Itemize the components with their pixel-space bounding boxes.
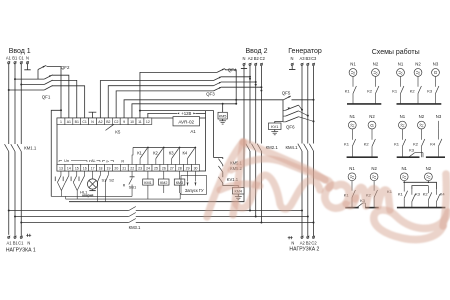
wire cell C2 to QF3 — [116, 91, 213, 118]
wire scheme6 cross links — [403, 181, 405, 182]
switch S1 — [99, 171, 101, 175]
node scheme4 busbars — [397, 156, 420, 158]
svg-text:N1: N1 — [398, 62, 404, 67]
terminal Input2 A2 — [249, 63, 251, 65]
svg-text:K1: K1 — [398, 192, 404, 197]
svg-text:12: 12 — [146, 120, 150, 124]
coil KM3 — [179, 171, 181, 179]
svg-text:+12В: +12В — [181, 111, 191, 116]
svg-text:авария: авария — [82, 194, 93, 198]
relay contact KM5.2 — [222, 165, 224, 167]
diagram scheme2 contacts K1 K2 K3 — [400, 77, 402, 87]
svg-text:N: N — [26, 56, 29, 61]
svg-text:14: 14 — [67, 167, 71, 171]
diagram scheme1 contacts K1 K2 — [352, 77, 354, 87]
svg-text:B1: B1 — [75, 120, 79, 124]
relay contact KV1.1 — [222, 172, 224, 177]
svg-text:N1: N1 — [401, 166, 407, 171]
wire cell12 +12V stub — [148, 113, 177, 118]
wire GU start arrows — [187, 171, 189, 182]
svg-text:K3: K3 — [415, 192, 421, 197]
svg-text:⊳: ⊳ — [106, 159, 109, 163]
switch S2 — [107, 171, 109, 175]
svg-text:SB1: SB1 — [129, 184, 137, 189]
wire phase C1 vertical — [20, 64, 22, 144]
wire cell A2 to QF3 — [100, 81, 213, 119]
svg-text:A1: A1 — [6, 56, 12, 61]
svg-text:N2: N2 — [371, 166, 377, 171]
svg-text:Ввод 2: Ввод 2 — [246, 48, 268, 55]
svg-text:20: 20 — [114, 167, 118, 171]
svg-text:N: N — [243, 56, 246, 61]
relay contact K3 bridge scheme4 — [409, 153, 415, 158]
wire collector line1 — [51, 195, 132, 197]
terminal Input2 B2 — [255, 63, 257, 65]
svg-text:Схемы работы: Схемы работы — [372, 48, 420, 56]
svg-text:16: 16 — [83, 167, 87, 171]
relay KM4 — [223, 183, 239, 188]
svg-text:Запуск ГУ: Запуск ГУ — [185, 188, 204, 193]
ground KM4 earth — [237, 194, 239, 197]
terminal Load1 N connector — [26, 234, 31, 236]
svg-text:24: 24 — [146, 167, 150, 171]
svg-text:QF6: QF6 — [286, 124, 295, 129]
svg-text:15: 15 — [75, 167, 79, 171]
svg-text:18: 18 — [99, 167, 103, 171]
svg-text:A1: A1 — [67, 120, 71, 124]
svg-text:Ввод 1: Ввод 1 — [9, 48, 31, 55]
breaker QF2 — [37, 70, 39, 80]
svg-text:НАГРУЗКА 2: НАГРУЗКА 2 — [289, 247, 319, 253]
svg-text:K2: K2 — [367, 88, 373, 93]
node scheme5 busbars — [345, 207, 358, 209]
svg-text:КМ1.1: КМ1.1 — [24, 145, 37, 150]
wire bus phase A — [9, 210, 129, 212]
svg-text:QF5: QF5 — [282, 91, 291, 96]
node scheme6 busbar — [397, 207, 446, 209]
svg-text:A1: A1 — [190, 129, 196, 134]
terminal Gen C3 — [312, 63, 314, 65]
contactor contact KM3.1 (3 poles) — [129, 207, 136, 211]
svg-text:21: 21 — [122, 167, 126, 171]
relay KM5 — [222, 104, 224, 113]
svg-text:S1: S1 — [101, 177, 107, 182]
svg-text:QF2: QF2 — [61, 65, 70, 70]
wire cell10 to KM5 line — [132, 104, 236, 118]
svg-text:K2: K2 — [423, 192, 429, 197]
svg-text:23: 23 — [138, 167, 142, 171]
ground KM5 earth — [222, 119, 224, 121]
lamp HL1 — [92, 171, 94, 179]
node scheme3 busbar — [347, 156, 378, 158]
contactor contact KM2.1 (3 poles) — [246, 144, 250, 151]
diagram scheme5 contacts K1 K2 — [351, 181, 353, 191]
ground KV1 earth — [274, 130, 276, 132]
svg-text:G: G — [370, 123, 374, 128]
wire chain feeder — [214, 157, 223, 159]
terminal Input1 A1 — [8, 62, 10, 64]
svg-text:28: 28 — [178, 167, 182, 171]
ground Input2 N earth — [243, 66, 245, 69]
svg-text:29: 29 — [186, 167, 190, 171]
coil KM1 — [147, 171, 149, 179]
svg-text:9: 9 — [123, 120, 125, 124]
coil KM2 — [163, 171, 165, 179]
svg-text:K5: K5 — [115, 129, 121, 134]
wire Gen B3 vertical — [307, 66, 309, 144]
wire phase B1 vertical — [14, 64, 16, 144]
wire Input2 C2 vertical — [260, 66, 262, 144]
svg-text:K1: K1 — [394, 141, 400, 146]
bracket arrow symbol — [103, 159, 106, 161]
terminal Input1 C1 — [20, 62, 22, 64]
svg-text:N1: N1 — [400, 114, 406, 119]
op-amp module AVR-02 outline — [57, 118, 206, 171]
breaker QF5 — [283, 96, 290, 100]
svg-text:13: 13 — [59, 167, 63, 171]
svg-text:N: N — [291, 241, 294, 246]
svg-text:K1: K1 — [345, 88, 351, 93]
node dot junction cell1 branch — [60, 109, 62, 111]
relay contacts K1-K4 with common bus — [133, 147, 195, 149]
svg-text:1: 1 — [60, 120, 62, 124]
svg-text:A2: A2 — [98, 120, 102, 124]
svg-text:27: 27 — [170, 167, 174, 171]
svg-text:K2: K2 — [410, 88, 416, 93]
op-amp AVR-02 label box — [173, 117, 200, 126]
svg-text:K3: K3 — [409, 148, 415, 153]
svg-text:КМ1: КМ1 — [144, 181, 151, 185]
wire bus +A3 line cell9 — [124, 100, 283, 118]
svg-text:К2: К2 — [153, 151, 158, 156]
terminal Load1 B1 — [14, 236, 16, 238]
terminal Input2 N — [243, 63, 245, 65]
svg-text:R: R — [121, 159, 124, 163]
svg-text:QF3: QF3 — [206, 91, 215, 96]
diagram scheme4 contacts K1 K2 K4 — [401, 129, 403, 140]
svg-text:C1: C1 — [19, 56, 25, 61]
svg-text:A1: A1 — [6, 241, 12, 246]
svg-text:A3: A3 — [299, 56, 305, 61]
breaker QF1 (3 poles) — [15, 78, 44, 80]
node scheme1 busbar — [347, 103, 381, 105]
terminal Gen A3 — [301, 63, 303, 65]
svg-text:S2: S2 — [109, 177, 115, 182]
svg-text:Uн: Uн — [64, 159, 69, 163]
svg-text:К4: К4 — [182, 151, 187, 156]
svg-text:22: 22 — [130, 167, 134, 171]
relay contact KM5.1 — [222, 158, 224, 160]
svg-text:N2: N2 — [373, 62, 379, 67]
svg-text:B2: B2 — [106, 120, 110, 124]
svg-text:N3: N3 — [433, 62, 439, 67]
terminal Load2 C2 — [312, 236, 314, 238]
terminal Input1 N — [26, 62, 28, 64]
svg-text:C2: C2 — [114, 120, 119, 124]
svg-text:QF4: QF4 — [228, 68, 237, 73]
svg-text:11: 11 — [138, 120, 142, 124]
bracket Un — [59, 159, 62, 161]
svg-text:НАГРУЗКА 1: НАГРУЗКА 1 — [6, 247, 36, 253]
wire branch to left vertical — [51, 110, 61, 196]
wire Input2 B2 vertical — [255, 66, 257, 144]
wire Input2 N return — [69, 69, 244, 202]
wire Gen C3 vertical — [313, 66, 315, 144]
wire collector line2 — [66, 198, 181, 200]
terminal Load2 N connector — [288, 237, 293, 239]
svg-text:K2: K2 — [364, 141, 370, 146]
svg-text:C1: C1 — [82, 120, 87, 124]
svg-text:K1: K1 — [344, 141, 350, 146]
svg-text:C2: C2 — [260, 56, 266, 61]
svg-text:25: 25 — [154, 167, 158, 171]
svg-text:N3: N3 — [436, 114, 442, 119]
wire collector line3 (N) — [69, 201, 244, 203]
svg-text:26: 26 — [162, 167, 166, 171]
svg-text:N1: N1 — [350, 62, 356, 67]
svg-text:G: G — [434, 70, 438, 75]
svg-text:B2: B2 — [254, 56, 260, 61]
selector contacts cells 13-16 — [60, 171, 62, 176]
ground Input1 N earth — [27, 64, 29, 70]
svg-text:K2: K2 — [413, 141, 419, 146]
terminal Input1 B1 — [14, 62, 16, 64]
svg-text:N1: N1 — [350, 114, 356, 119]
svg-text:К3: К3 — [169, 151, 174, 156]
svg-text:Генератор: Генератор — [288, 48, 322, 55]
wire cell11 branch right — [140, 111, 214, 158]
relay contact K3 bridge scheme5 — [357, 203, 363, 208]
node scheme2 busbar — [397, 103, 442, 105]
svg-text:КМ3: КМ3 — [176, 181, 183, 185]
breaker QF3 (3 poles) — [214, 77, 222, 81]
svg-text:N1: N1 — [349, 166, 355, 171]
svg-text:K3: K3 — [427, 88, 433, 93]
svg-text:N2: N2 — [369, 114, 375, 119]
terminal Input2 C2 — [260, 63, 262, 65]
terminal strip top row 1..12 — [57, 118, 65, 125]
svg-text:КМ3.1: КМ3.1 — [129, 225, 141, 230]
wire cell11 vertical to QF4 — [140, 72, 217, 118]
terminal Load1 C1 — [20, 236, 22, 238]
svg-text:N2: N2 — [419, 114, 425, 119]
svg-text:К1: К1 — [137, 151, 142, 156]
wire Gen A3 vertical — [301, 66, 303, 144]
terminal Load2 A2 — [301, 236, 303, 238]
ground Gen N earth — [291, 66, 293, 70]
svg-text:B1: B1 — [12, 56, 18, 61]
diagram scheme3 contacts K1 K2 — [351, 129, 353, 140]
relay KV1 — [275, 122, 283, 124]
breaker QF4 — [217, 69, 225, 73]
svg-text:КМ5: КМ5 — [219, 115, 227, 119]
terminal Gen N — [291, 63, 293, 65]
svg-text:C1: C1 — [18, 241, 24, 246]
svg-text:AL: AL — [91, 159, 96, 163]
svg-text:A2: A2 — [300, 241, 306, 246]
svg-text:N: N — [27, 241, 30, 246]
svg-text:N: N — [291, 56, 294, 61]
svg-text:KV1: KV1 — [271, 124, 278, 129]
bracket AL — [90, 159, 91, 161]
terminal Load2 B2 — [307, 236, 309, 238]
wire phase A1 vertical — [8, 64, 10, 144]
contactor contact KM4.1 (3 poles) — [298, 144, 302, 151]
svg-text:30: 30 — [194, 167, 198, 171]
svg-text:K1: K1 — [392, 88, 398, 93]
node N cell antenna bar — [91, 112, 93, 118]
push button SB1 — [131, 171, 133, 176]
diagram scheme6 contacts K1 K3 K2 K4 — [403, 182, 405, 191]
svg-text:10: 10 — [130, 120, 134, 124]
svg-text:КМ2: КМ2 — [160, 181, 167, 185]
svg-text:19: 19 — [107, 167, 111, 171]
node GU start box — [181, 176, 207, 195]
terminal Gen B3 — [307, 63, 309, 65]
wire cell B2 to QF3 — [108, 86, 213, 118]
svg-text:A2: A2 — [248, 56, 254, 61]
wire Input2 A2 vertical — [249, 66, 251, 144]
terminal Load1 A1 — [8, 236, 10, 238]
svg-text:N2: N2 — [426, 166, 432, 171]
svg-text:K4: K4 — [430, 141, 436, 146]
terminal strip bottom row 13..30 — [57, 165, 65, 172]
svg-text:QF1: QF1 — [42, 95, 51, 100]
breaker QF6 (3 poles) — [282, 100, 284, 122]
svg-text:17: 17 — [91, 167, 95, 171]
svg-text:C2: C2 — [311, 241, 317, 246]
svg-text:N2: N2 — [415, 62, 421, 67]
wire bus phase C — [21, 222, 129, 224]
svg-text:КМ4.1: КМ4.1 — [285, 145, 298, 150]
wire bus phase B — [15, 216, 129, 218]
relay contact K5 — [106, 124, 115, 130]
contactor contact KM1.1 (3 poles) — [5, 144, 9, 151]
svg-text:AVR-02: AVR-02 — [178, 120, 194, 125]
svg-text:C3: C3 — [311, 56, 317, 61]
